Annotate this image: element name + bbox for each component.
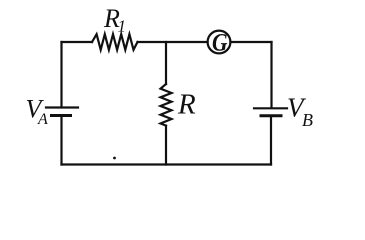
wire top-right segment <box>231 41 272 43</box>
wire left rail upper <box>60 42 62 107</box>
wire middle branch lower <box>165 126 167 165</box>
battery VB long plate <box>254 107 287 109</box>
wire right rail lower <box>270 117 272 165</box>
battery VA long plate <box>46 106 78 108</box>
node dot on bottom wire <box>113 157 116 160</box>
svg-text:G: G <box>212 30 228 57</box>
svg-text:B: B <box>302 110 313 130</box>
svg-text:R: R <box>177 89 196 121</box>
wire top-left segment <box>62 41 93 43</box>
wire bottom <box>62 163 272 165</box>
wire right rail upper <box>270 42 272 107</box>
wire top-middle segment <box>138 41 208 43</box>
resistor R <box>161 84 172 126</box>
battery VA short plate <box>52 114 71 117</box>
wire middle branch upper <box>165 42 167 84</box>
galvanometer G circle <box>208 31 231 54</box>
wire left rail lower <box>60 117 62 165</box>
svg-text:1: 1 <box>118 17 127 36</box>
battery VB short plate <box>261 114 281 117</box>
svg-text:A: A <box>37 111 48 128</box>
resistor R1 <box>92 34 138 50</box>
